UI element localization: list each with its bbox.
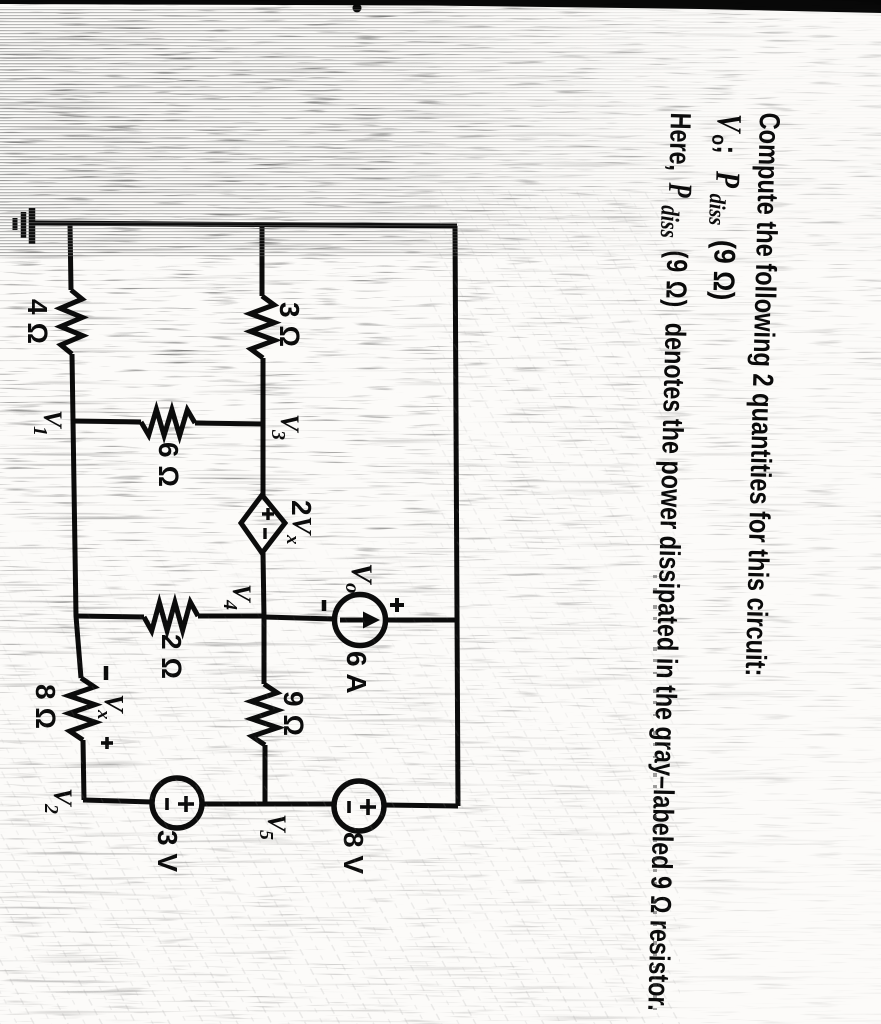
- resistor 9-ohm (middle rail): [251, 684, 277, 745]
- wire middle rail segment (diamond source to node V4 to 9-ohm): [263, 553, 264, 684]
- wire top rail (ground node): [455, 226, 458, 806]
- wire bottom rail right segment (8-ohm to node V2): [83, 740, 84, 800]
- wire 6-ohm branch upper (node V3 down to 6-ohm): [195, 423, 263, 424]
- resistor 6-ohm (vertical branch V3-V1): [141, 409, 195, 435]
- resistor 8-ohm (bottom rail): [69, 678, 96, 740]
- dependent source 2Vx (diamond on middle rail): [241, 495, 285, 553]
- resistor 2-ohm (vertical branch V4-bottom): [144, 602, 198, 631]
- wire middle rail segment (left rail to 3-ohm): [260, 224, 265, 296]
- current source 6A (circle with up arrow): [335, 595, 386, 646]
- ground symbol at bottom of left rail: [15, 208, 32, 244]
- wire right rail lower segment (3V source to node V2): [83, 800, 152, 802]
- wire 6-ohm branch lower (6-ohm down to node V1): [73, 421, 141, 422]
- problem statement line 2: [705, 113, 744, 325]
- wire 2-ohm branch upper (node V4 down to 2-ohm): [198, 614, 264, 619]
- wire right rail segment (8V source to node V5 to 3V source): [202, 802, 334, 807]
- problem statement line 1: [734, 112, 785, 805]
- wire 6A branch upper (top rail down to 6A source): [385, 618, 457, 623]
- wire 6A branch lower (6A source down to node V4): [264, 617, 334, 619]
- label minus Vx plus (voltage across 8-ohm): [93, 666, 129, 749]
- wire bottom rail segment (4-ohm to node V1 to 2-ohm branch to 8-ohm): [72, 354, 81, 678]
- problem statement line 3: [635, 112, 696, 1024]
- minus sign of Vo polarity (below-left of 6A source): [322, 600, 327, 611]
- resistor 3-ohm (middle rail): [250, 296, 274, 358]
- wire left rail: [34, 223, 457, 226]
- voltage source 3V (circle on right rail): [152, 778, 202, 828]
- wire middle rail segment (3-ohm to node V3 to diamond source): [261, 358, 266, 495]
- voltage source 8V (circle on right rail): [334, 781, 384, 831]
- wire 2-ohm branch lower (2-ohm down to bottom rail): [76, 616, 144, 617]
- plus sign of Vo polarity (left of 6A source): [390, 598, 404, 612]
- wire bottom rail left segment (left rail to 4-ohm): [70, 223, 71, 290]
- resistor 4-ohm (bottom rail): [60, 290, 82, 354]
- wire right rail upper segment (top corner to 8V source): [384, 805, 458, 806]
- wire middle rail segment (9-ohm to node V5): [263, 745, 268, 804]
